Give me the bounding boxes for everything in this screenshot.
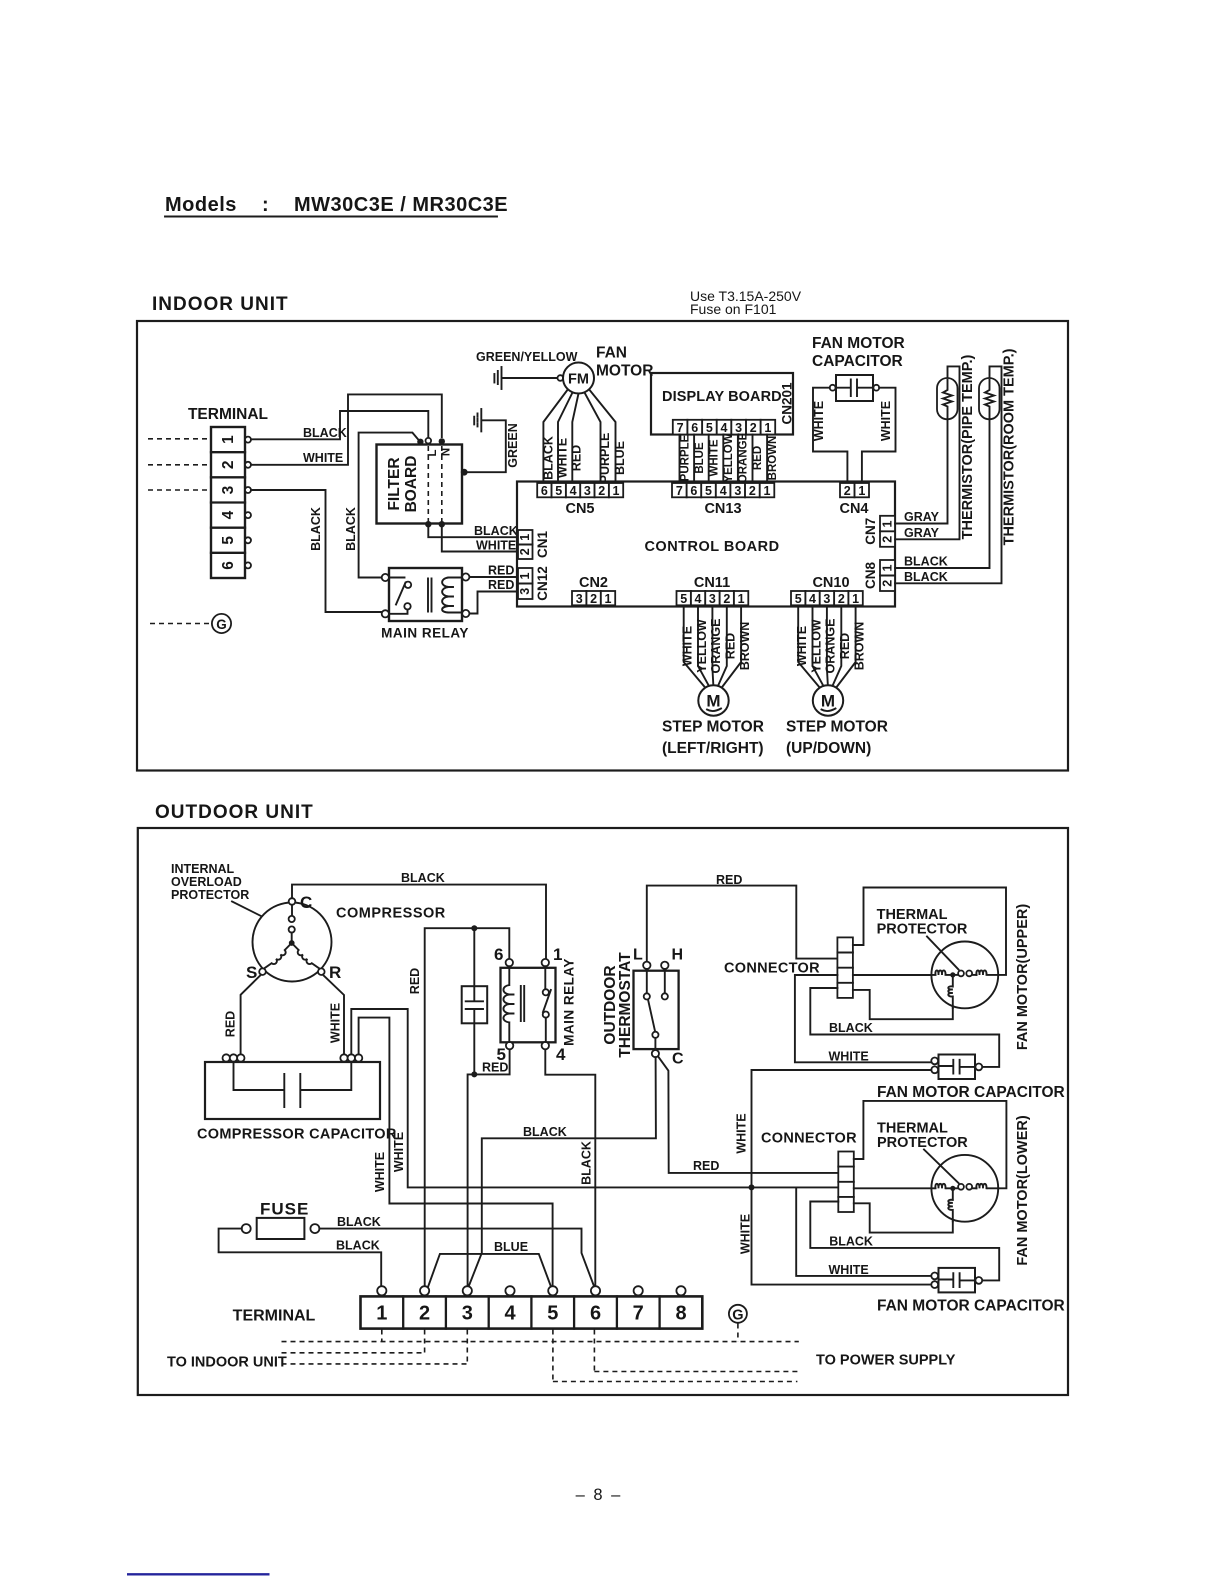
svg-text:BLUE: BLUE	[494, 1240, 528, 1254]
wire BLACK terminal3 to main relay lower-left	[251, 490, 381, 612]
thermostat terminal H	[661, 962, 668, 969]
wire cell4 to motor aux winding	[853, 990, 953, 1019]
svg-text:4: 4	[556, 1045, 566, 1064]
svg-text:5: 5	[497, 1045, 506, 1064]
svg-text:1: 1	[613, 484, 620, 498]
relay pin 1	[542, 959, 549, 966]
wire WHITE capacitor left to CN4 pin2	[813, 388, 847, 483]
fan motor (lower) second winding	[976, 1184, 998, 1189]
wire cell1 to motor right loop (lower)	[854, 1101, 1007, 1188]
dashed line terminal 3 row	[282, 1330, 468, 1364]
dashed stubs left of terminal 1-3	[148, 439, 211, 490]
svg-text:GREEN/YELLOW: GREEN/YELLOW	[476, 350, 578, 364]
OUTDOOR THERMOSTAT box	[634, 971, 679, 1049]
filter board top terminals	[417, 438, 445, 445]
fan motor (lower) junction dot	[950, 1186, 955, 1191]
terminal block (indoor, 6 cells)	[211, 427, 245, 578]
svg-text:FAN MOTOR CAPACITOR: FAN MOTOR CAPACITOR	[877, 1084, 1065, 1101]
wires CN11 to step motor left/right	[684, 607, 741, 689]
svg-text:4: 4	[220, 510, 237, 519]
relay pin 5	[506, 1042, 513, 1049]
svg-text:L: L	[633, 947, 643, 964]
svg-text:3: 3	[576, 592, 583, 606]
wire RED junction to terminal 2	[425, 928, 510, 1288]
svg-text:OUTDOOR UNIT: OUTDOOR UNIT	[155, 802, 314, 823]
ground terminal G (indoor)	[150, 614, 231, 633]
svg-text:WHITE: WHITE	[303, 451, 343, 465]
svg-text:5: 5	[547, 1303, 558, 1325]
compressor terminal R	[318, 968, 325, 975]
compressor winding to R	[292, 943, 320, 969]
indoor unit enclosure box	[137, 321, 1068, 771]
svg-text:GRAY: GRAY	[904, 526, 940, 540]
svg-text:Fuse on F101: Fuse on F101	[690, 301, 777, 317]
svg-text:BROWN: BROWN	[852, 622, 866, 671]
svg-text:WHITE: WHITE	[739, 1214, 753, 1254]
svg-text:2: 2	[518, 548, 532, 555]
fan motor (upper) circle	[931, 942, 998, 1009]
svg-text:BLACK: BLACK	[523, 1125, 567, 1139]
svg-text:2: 2	[838, 592, 845, 606]
svg-text:WHITE: WHITE	[373, 1152, 387, 1192]
step motor (left/right) circle M	[698, 685, 728, 715]
svg-text:MAIN RELAY: MAIN RELAY	[562, 958, 577, 1046]
svg-text:1: 1	[605, 592, 612, 606]
title Models : MW30C3E / MR30C3E	[165, 194, 508, 217]
svg-text:ORANGE: ORANGE	[824, 619, 838, 674]
wire BLUE terminal 2 to terminal 5	[428, 1254, 552, 1288]
CONTROL BOARD box	[517, 482, 895, 607]
svg-text:1: 1	[881, 520, 895, 527]
wire GRAY CN7 pin1 to thermistor pipe bottom	[895, 420, 948, 524]
svg-text:CN1: CN1	[535, 531, 550, 558]
wire BLACK CN8 pin2 to thermistor room top loop	[895, 366, 1002, 583]
svg-text:3: 3	[709, 592, 716, 606]
svg-text:WHITE: WHITE	[476, 539, 516, 553]
svg-text:7: 7	[676, 484, 683, 498]
svg-text:RED: RED	[224, 1011, 238, 1037]
wire cell4 to motor aux winding (lower)	[854, 1203, 953, 1232]
wire WHITE capacitor to terminal 5	[359, 1018, 553, 1287]
svg-text:TERMINAL: TERMINAL	[233, 1308, 316, 1325]
wire RED thermostat L to upper connector	[647, 886, 838, 962]
svg-text:2: 2	[881, 536, 895, 543]
svg-text:GREEN: GREEN	[506, 423, 520, 467]
dashed line terminal 2 row	[282, 1330, 425, 1353]
svg-text:PROTECTOR: PROTECTOR	[171, 888, 249, 902]
compressor terminal C	[289, 898, 296, 905]
svg-text:MAIN RELAY: MAIN RELAY	[381, 626, 469, 641]
svg-text:BLACK: BLACK	[309, 507, 323, 551]
svg-text:FM: FM	[568, 372, 589, 388]
connector CN13 (7 cells)	[672, 483, 774, 498]
svg-text:TO INDOOR UNIT: TO INDOOR UNIT	[167, 1355, 287, 1371]
svg-text:BLACK: BLACK	[336, 1239, 380, 1253]
svg-text:GRAY: GRAY	[904, 510, 940, 524]
svg-text:WHITE: WHITE	[812, 401, 826, 441]
svg-text:CAPACITOR: CAPACITOR	[812, 353, 903, 370]
svg-text:BLACK: BLACK	[401, 871, 445, 885]
svg-text:FUSE: FUSE	[260, 1200, 309, 1219]
wire RED thermostat C to lower connector	[658, 1056, 838, 1173]
run capacitor symbol	[466, 928, 483, 1071]
fan motor (upper) second winding	[976, 970, 997, 975]
connector strip (lower, 4 cells)	[838, 1152, 854, 1213]
svg-text:(LEFT/RIGHT): (LEFT/RIGHT)	[662, 740, 764, 757]
label STEP MOTOR (LEFT/RIGHT)	[662, 719, 764, 758]
svg-text:M: M	[706, 692, 720, 711]
svg-text:TO POWER SUPPLY: TO POWER SUPPLY	[816, 1353, 956, 1369]
connector CN4 (2 cells)	[840, 483, 869, 498]
FM fan-out wires to CN5	[543, 391, 615, 482]
svg-text:RED: RED	[838, 633, 852, 659]
svg-text:1: 1	[518, 572, 532, 579]
relay pin 6	[506, 959, 513, 966]
thermistor (room temp) body	[979, 378, 1000, 419]
svg-text:STEP MOTOR: STEP MOTOR	[786, 719, 888, 736]
svg-text:3: 3	[518, 588, 532, 595]
svg-text:R: R	[329, 963, 341, 982]
label FAN MOTOR CAPACITOR (indoor)	[812, 335, 905, 370]
connector CN2 (3 cells)	[572, 591, 615, 606]
svg-text:CN10: CN10	[812, 575, 849, 591]
connector CN1 (2 cells)	[518, 530, 533, 559]
svg-text:YELLOW: YELLOW	[723, 433, 735, 482]
svg-text:PURPLE: PURPLE	[680, 434, 692, 481]
svg-text:CN11: CN11	[694, 575, 730, 591]
svg-text:INTERNAL: INTERNAL	[171, 862, 235, 876]
connector CN11 (5 cells)	[677, 591, 749, 606]
svg-text:MW30C3E / MR30C3E: MW30C3E / MR30C3E	[294, 194, 508, 216]
svg-text:CN8: CN8	[863, 562, 878, 589]
wire BLACK cell4 to fan motor capacitor right	[810, 988, 999, 1067]
pointer line to protector contacts	[232, 902, 283, 928]
wire BLACK cell4 to fan motor capacitor right (lower)	[810, 1202, 999, 1281]
compressor capacitor internal symbol	[234, 1062, 352, 1107]
svg-text:3: 3	[734, 484, 741, 498]
svg-text:WHITE: WHITE	[709, 439, 721, 476]
terminal block (outdoor, 8 cells)	[361, 1296, 703, 1328]
main relay switch contacts	[389, 578, 411, 614]
fan motor (upper) aux winding	[948, 975, 953, 1008]
svg-text:WHITE: WHITE	[392, 1132, 406, 1172]
svg-text:ORANGE: ORANGE	[709, 619, 723, 674]
wire RED main relay lower-right to CN12 pin3	[469, 592, 517, 614]
wire BLACK fuse right to terminal 6	[319, 1229, 594, 1288]
thermistor (pipe temp) body	[937, 378, 958, 419]
svg-text:2: 2	[419, 1303, 430, 1325]
dashed stub below G	[737, 1324, 739, 1342]
relay coil	[503, 966, 513, 1042]
junction dot red	[471, 925, 477, 931]
svg-text:4: 4	[720, 484, 727, 498]
svg-text:CONNECTOR: CONNECTOR	[761, 1131, 857, 1147]
wire WHITE filter board bottom to CN1 pin2	[442, 526, 517, 552]
svg-text:G: G	[216, 617, 227, 632]
svg-text:2: 2	[750, 421, 757, 435]
svg-text:CONTROL BOARD: CONTROL BOARD	[644, 539, 779, 555]
filter board bottom terminals	[425, 521, 445, 527]
svg-text:COMPRESSOR: COMPRESSOR	[336, 906, 446, 922]
svg-text:CN7: CN7	[863, 518, 878, 545]
compressor capacitor terminals left	[223, 1054, 245, 1061]
svg-text:6: 6	[494, 945, 503, 964]
wires display board to CN13	[680, 435, 768, 484]
COMPRESSOR CAPACITOR box	[205, 1062, 380, 1119]
svg-text:RED: RED	[488, 578, 514, 592]
svg-text:M: M	[821, 692, 835, 711]
svg-text:COMPRESSOR CAPACITOR: COMPRESSOR CAPACITOR	[197, 1127, 397, 1143]
svg-text:INDOOR UNIT: INDOOR UNIT	[152, 294, 289, 315]
connector CN12 (2 cells)	[518, 568, 533, 599]
connector CN7 (2 cells)	[880, 516, 895, 547]
svg-text:WHITE: WHITE	[556, 438, 570, 478]
svg-text:RED: RED	[693, 1159, 719, 1173]
svg-text:6: 6	[690, 484, 697, 498]
svg-text:C: C	[300, 893, 312, 912]
svg-text:G: G	[732, 1307, 743, 1323]
svg-text:1: 1	[764, 484, 771, 498]
svg-text:2: 2	[881, 580, 895, 587]
svg-text:4: 4	[695, 592, 702, 606]
svg-text:CN12: CN12	[535, 566, 550, 601]
note Use T3.15A-250V Fuse on F101	[690, 288, 802, 317]
label THERMAL PROTECTOR (lower)	[877, 1121, 968, 1152]
svg-text:BLUE: BLUE	[694, 442, 706, 474]
filter board internal dashed line L	[427, 446, 429, 522]
wire cell3 to motor left (lower)	[854, 1187, 933, 1189]
svg-text:BLACK: BLACK	[344, 507, 358, 551]
wire BLACK relay pin4 to terminal 6	[545, 1049, 595, 1288]
fan motor (lower) circle	[931, 1155, 998, 1222]
wire BLACK filter board top-left dot to main relay upper-left	[359, 433, 420, 578]
relay coil core	[521, 986, 524, 1021]
connector CN8 (2 cells)	[880, 560, 895, 591]
svg-text:3: 3	[220, 485, 237, 494]
svg-text:PROTECTOR: PROTECTOR	[877, 1135, 968, 1151]
svg-text:STEP MOTOR: STEP MOTOR	[662, 719, 764, 736]
main relay coil core lines	[428, 579, 432, 612]
svg-text:H: H	[672, 947, 684, 964]
svg-text:FAN: FAN	[596, 345, 627, 362]
svg-text:3: 3	[823, 592, 830, 606]
svg-text:BLACK: BLACK	[337, 1215, 381, 1229]
wire cell1 to motor right loop	[853, 888, 1006, 975]
label FAN MOTOR	[596, 345, 653, 380]
svg-text:RED: RED	[408, 968, 422, 994]
svg-text:L: L	[427, 449, 439, 456]
wire cell3 to motor left	[853, 974, 932, 976]
ground terminal G (outdoor)	[729, 1305, 747, 1324]
connector CN10 (5 cells)	[791, 591, 863, 606]
fan motor (upper) main winding	[932, 970, 950, 975]
pointer line thermal protector (upper)	[927, 937, 959, 970]
svg-text:1: 1	[738, 592, 745, 606]
svg-text:ORANGE: ORANGE	[738, 432, 750, 483]
fan motor FM circle	[563, 363, 594, 394]
svg-text:BLACK: BLACK	[303, 426, 347, 440]
connector strip (upper, 4 cells)	[837, 937, 853, 998]
svg-text:THERMOSTAT: THERMOSTAT	[617, 952, 634, 1058]
svg-text:1: 1	[858, 484, 865, 498]
svg-text:2: 2	[220, 460, 237, 469]
svg-text:2: 2	[723, 592, 730, 606]
wire WHITE capacitor right to CN4 pin1	[862, 388, 896, 483]
svg-text:BLACK: BLACK	[904, 555, 948, 569]
svg-text:BLACK: BLACK	[829, 1021, 873, 1035]
step motor (up/down) circle M	[813, 685, 843, 715]
svg-text:BLACK: BLACK	[829, 1235, 873, 1249]
relay pin 4	[542, 1042, 549, 1049]
svg-text:DISPLAY BOARD: DISPLAY BOARD	[662, 389, 782, 405]
svg-text:8: 8	[675, 1303, 686, 1325]
wire GRAY CN7 pin2 to thermistor pipe top loop	[895, 366, 960, 539]
dashed line terminal 5 row	[553, 1330, 798, 1382]
svg-text:5: 5	[705, 484, 712, 498]
svg-text:6: 6	[541, 484, 548, 498]
main relay terminals	[382, 573, 470, 617]
svg-text:– 8 –: – 8 –	[576, 1486, 623, 1504]
svg-text:5: 5	[555, 484, 562, 498]
svg-text:WHITE: WHITE	[829, 1263, 869, 1277]
svg-text:5: 5	[795, 592, 802, 606]
svg-text:1: 1	[518, 534, 532, 541]
svg-text:N: N	[441, 448, 453, 456]
svg-text:1: 1	[376, 1303, 387, 1325]
wire BLACK thermostat C to terminal 3	[468, 1057, 656, 1288]
wire GREEN ground to filter board right	[467, 420, 506, 472]
junction dot below run capacitor	[471, 1071, 477, 1077]
svg-text:5: 5	[706, 421, 713, 435]
svg-text:CN2: CN2	[579, 575, 608, 591]
ground symbol (right of filter board)	[474, 409, 481, 431]
outdoor unit enclosure box	[138, 828, 1068, 1395]
svg-text:1: 1	[881, 564, 895, 571]
FM terminal circle	[558, 375, 564, 381]
display board connector (7 cells)	[673, 420, 775, 435]
svg-text:5: 5	[680, 592, 687, 606]
svg-text:BLACK: BLACK	[474, 524, 518, 538]
fuse body	[242, 1218, 320, 1239]
svg-text:RED: RED	[716, 873, 742, 887]
svg-text:CN5: CN5	[565, 501, 594, 517]
wire BLACK fuse left to terminal 1	[219, 1229, 382, 1287]
dashed line terminal 1 row	[282, 1330, 799, 1342]
junction dot on white bus	[749, 1184, 755, 1190]
svg-text:RED: RED	[752, 446, 764, 470]
svg-text:1: 1	[220, 435, 237, 444]
svg-text:4: 4	[721, 421, 728, 435]
wire WHITE cell3 to fan motor capacitor left	[795, 975, 931, 1062]
wire BLACK terminal1 to filter board L	[251, 411, 428, 439]
label THERMAL PROTECTOR (upper)	[877, 907, 968, 938]
svg-text:BROWN: BROWN	[738, 622, 752, 671]
svg-text:WHITE: WHITE	[829, 1050, 869, 1064]
label INTERNAL OVERLOAD PROTECTOR	[171, 862, 249, 902]
svg-text:6: 6	[220, 561, 237, 570]
terminal top circles	[377, 1286, 685, 1295]
thermostat terminal L	[643, 962, 650, 969]
run capacitor (relay) box	[462, 986, 488, 1023]
decorative blue line bottom left	[127, 1573, 270, 1575]
svg-text:RED: RED	[488, 564, 514, 578]
svg-text:RED: RED	[724, 633, 738, 659]
wire RED compressor S to capacitor	[241, 975, 261, 1054]
svg-text:YELLOW: YELLOW	[695, 619, 709, 673]
compressor capacitor terminals right	[340, 1054, 362, 1061]
svg-text:BLACK: BLACK	[542, 436, 556, 480]
wire BLACK filter board bottom to CN1 pin1	[428, 526, 517, 537]
thermostat internal contacts	[644, 969, 668, 1057]
fan motor (lower) aux winding	[948, 1188, 953, 1221]
filter board internal dashed line N	[441, 446, 443, 522]
compressor star point	[289, 940, 295, 946]
svg-text:BLACK: BLACK	[580, 1141, 594, 1185]
fan motor (lower) main winding	[932, 1184, 950, 1189]
svg-text:WHITE: WHITE	[879, 401, 893, 441]
svg-text:RED: RED	[570, 445, 584, 471]
main relay coil	[442, 578, 462, 613]
svg-text:FAN MOTOR CAPACITOR: FAN MOTOR CAPACITOR	[877, 1298, 1065, 1315]
wire WHITE terminal2 to filter board N	[251, 394, 442, 464]
MAIN RELAY (outdoor) box	[501, 968, 556, 1043]
wire WHITE compressor R to capacitor	[323, 975, 344, 1054]
svg-text:1: 1	[764, 421, 771, 435]
terminal pin circles	[245, 437, 251, 569]
svg-text:WHITE: WHITE	[795, 626, 809, 666]
svg-text:TERMINAL: TERMINAL	[188, 406, 268, 423]
compressor overload contacts	[289, 905, 295, 940]
wire BLACK CN8 pin1 to thermistor room bottom	[895, 420, 990, 568]
svg-text:3: 3	[584, 484, 591, 498]
svg-text:CN4: CN4	[839, 501, 868, 517]
svg-text:3: 3	[735, 421, 742, 435]
svg-text:4: 4	[504, 1303, 516, 1325]
svg-text:4: 4	[570, 484, 577, 498]
MAIN RELAY (indoor) box	[389, 568, 462, 621]
fan motor capacitor (upper)	[931, 1055, 982, 1080]
compressor terminal S	[259, 968, 266, 975]
wire GREEN/YELLOW ground to FM	[502, 377, 557, 379]
svg-text:4: 4	[809, 592, 816, 606]
wire WHITE capacitor to lower connector (long bus)	[351, 1009, 838, 1187]
wire WHITE bus upper capacitor to lower capacitor	[752, 1070, 932, 1285]
svg-text:Models: Models	[165, 194, 237, 216]
wire RED relay pin5 to terminal 3	[468, 1049, 510, 1289]
svg-text:PURPLE: PURPLE	[598, 433, 612, 484]
svg-text:MOTOR: MOTOR	[596, 363, 653, 380]
svg-text:WHITE: WHITE	[735, 1113, 749, 1153]
svg-text:CN201: CN201	[780, 382, 795, 425]
svg-text:PROTECTOR: PROTECTOR	[877, 922, 968, 938]
connector CN5 (6 cells)	[537, 483, 623, 498]
svg-text:6: 6	[691, 421, 698, 435]
svg-text:THERMISTOR(ROOM TEMP.): THERMISTOR(ROOM TEMP.)	[1002, 348, 1018, 545]
svg-text:BOARD: BOARD	[403, 456, 420, 513]
fan motor (upper) junction dot	[950, 972, 955, 977]
svg-text:(UP/DOWN): (UP/DOWN)	[786, 740, 871, 757]
svg-text:THERMISTOR(PIPE TEMP.): THERMISTOR(PIPE TEMP.)	[960, 354, 976, 539]
dashed line terminal 6 row	[594, 1330, 797, 1372]
svg-text:BLUE: BLUE	[613, 441, 627, 475]
svg-text:CN13: CN13	[704, 501, 741, 517]
svg-text:3: 3	[462, 1303, 473, 1325]
DISPLAY BOARD box	[651, 373, 793, 435]
svg-text:YELLOW: YELLOW	[809, 619, 823, 673]
svg-text:5: 5	[220, 536, 237, 545]
svg-text:2: 2	[844, 484, 851, 498]
label STEP MOTOR (UP/DOWN)	[786, 719, 888, 758]
